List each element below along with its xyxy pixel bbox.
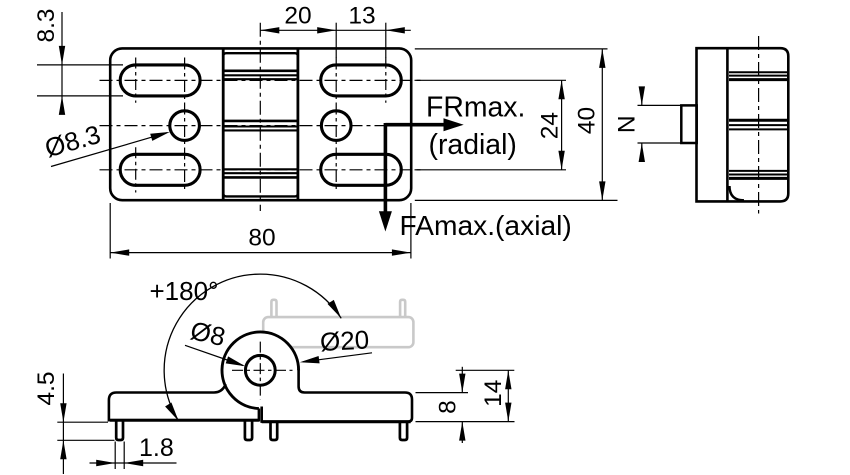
knuckle bottom-left fillet xyxy=(730,186,745,200)
centerlines top view xyxy=(100,23,425,211)
side knuckle lines group2 xyxy=(729,120,787,129)
knuckle division lines group2 xyxy=(224,121,298,130)
side knuckle lines group3 xyxy=(729,171,787,179)
row centerline middle xyxy=(100,125,425,127)
side view outer outline xyxy=(697,48,789,201)
svg-text:14: 14 xyxy=(480,380,507,407)
right leaf bottom edge xyxy=(262,420,411,423)
ghost bar xyxy=(263,317,413,347)
plate vertical centerline xyxy=(259,23,261,211)
inner circle (pin hole) xyxy=(245,355,275,385)
leader Ø8.3 xyxy=(51,133,167,167)
dimension 24 and 40 (right of top view) xyxy=(415,49,618,201)
+180 rotation arc xyxy=(164,274,341,421)
svg-text:8.3: 8.3 xyxy=(33,8,60,42)
left leaf bottom edge xyxy=(110,419,259,422)
dimension 80 (bottom of top view) xyxy=(110,203,411,259)
side knuckle lines group1 xyxy=(729,72,787,79)
svg-text:FAmax.(axial): FAmax.(axial) xyxy=(400,209,572,241)
dimension 14 (pin center height) xyxy=(456,370,515,421)
svg-text:(radial): (radial) xyxy=(429,129,517,161)
hinge knuckle right edge xyxy=(296,49,299,201)
side view leaf/knuckle divider xyxy=(726,48,729,201)
svg-text:24: 24 xyxy=(537,112,564,139)
row centerline bottom xyxy=(100,169,422,171)
dimension N xyxy=(638,88,683,161)
leader Ø8 (pin hole) xyxy=(185,345,243,365)
svg-text:N: N xyxy=(614,115,641,133)
svg-text:8: 8 xyxy=(435,400,462,414)
knuckle division lines group3 xyxy=(224,169,298,177)
knuckle inner top line xyxy=(223,53,298,56)
foot 2 xyxy=(245,422,252,441)
knuckle outer circle arc xyxy=(222,332,299,409)
dimension 4.5 (foot height) xyxy=(57,374,114,475)
foot 1 xyxy=(116,422,123,441)
svg-text:20: 20 xyxy=(284,3,311,30)
left leaf outline xyxy=(109,384,259,420)
slot hole bottom-right xyxy=(321,154,402,185)
hinge knuckle left edge xyxy=(222,49,225,201)
ghost foot 1 (up) xyxy=(271,300,276,318)
pin tab xyxy=(681,105,696,143)
svg-text:+180°: +180° xyxy=(150,276,219,306)
dimension 20 and 13 (top) xyxy=(260,23,411,58)
slot hole top-right xyxy=(321,65,402,96)
dimension 1.8 (foot width) xyxy=(90,442,177,470)
circle hole right xyxy=(321,111,351,141)
force arrow FR (radial) xyxy=(385,123,445,212)
svg-text:FRmax.: FRmax. xyxy=(426,91,525,123)
ghost foot 2 (up) xyxy=(400,300,405,318)
dimension 8.3 (slot width) xyxy=(37,12,123,109)
slot hole bottom-left xyxy=(120,154,200,185)
ghost flipped leaf (rotated +180) xyxy=(263,300,413,347)
plate outline top view xyxy=(110,48,411,200)
foot 4 xyxy=(400,422,407,441)
svg-text:40: 40 xyxy=(574,107,601,134)
foot 3 xyxy=(271,422,278,441)
svg-text:13: 13 xyxy=(348,3,375,30)
right leaf outline xyxy=(262,369,412,422)
svg-text:Ø20: Ø20 xyxy=(319,324,370,357)
row centerline top xyxy=(100,79,422,81)
column centerline x=184.6 xyxy=(184,58,186,193)
circle hole left xyxy=(170,111,200,141)
svg-text:80: 80 xyxy=(248,225,275,252)
knuckle division lines group1 xyxy=(224,71,298,79)
knuckle center crosshair xyxy=(232,369,293,371)
dimension 8 (leaf thickness) xyxy=(416,367,515,443)
knuckle white fill xyxy=(221,331,300,410)
column centerline x=135.7 xyxy=(135,58,137,103)
column centerline x=385.8 xyxy=(385,58,387,103)
side view centerline xyxy=(758,36,760,214)
knuckle inner bottom line xyxy=(223,193,298,196)
slot hole top-left xyxy=(120,65,200,96)
svg-text:1.8: 1.8 xyxy=(139,434,174,462)
column centerline x=336.2 xyxy=(335,58,337,193)
leader Ø20 (knuckle) xyxy=(303,353,372,362)
svg-text:4.5: 4.5 xyxy=(33,371,60,405)
